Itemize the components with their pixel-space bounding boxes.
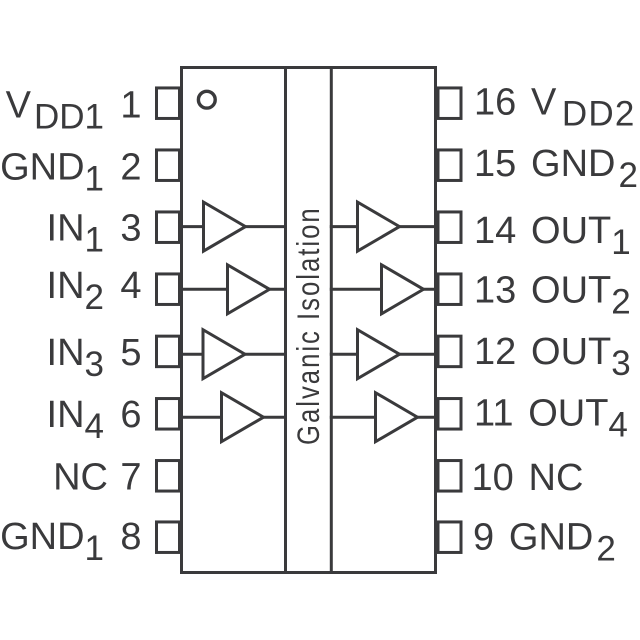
svg-text:2: 2 bbox=[120, 147, 141, 189]
svg-text:5: 5 bbox=[120, 332, 141, 374]
svg-text:Galvanic Isolation: Galvanic Isolation bbox=[291, 206, 326, 445]
svg-text:7: 7 bbox=[120, 457, 141, 499]
svg-text:4: 4 bbox=[120, 265, 141, 307]
svg-text:3: 3 bbox=[120, 208, 141, 250]
svg-text:NC: NC bbox=[53, 457, 108, 499]
svg-text:1: 1 bbox=[120, 85, 141, 127]
svg-text:8: 8 bbox=[120, 516, 141, 558]
svg-text:6: 6 bbox=[120, 394, 141, 436]
svg-text:10 NC: 10 NC bbox=[472, 457, 584, 499]
